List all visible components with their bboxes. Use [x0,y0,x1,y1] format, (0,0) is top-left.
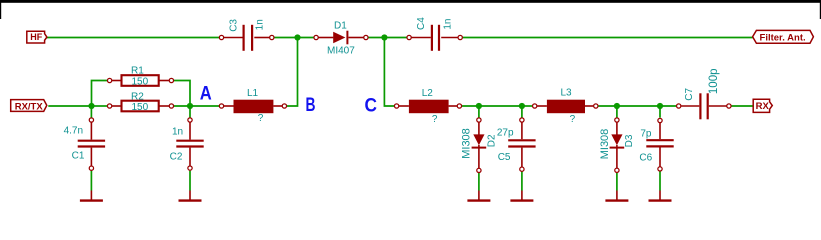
svg-text:C6: C6 [639,153,652,164]
svg-text:1n: 1n [172,127,183,138]
inductor L2 [394,100,461,114]
svg-text:C1: C1 [72,151,85,162]
window border top bar [0,0,821,3]
capacitor C7 [677,93,732,119]
diode D1 [314,31,368,45]
svg-text:D3: D3 [624,134,635,147]
svg-text:MI407: MI407 [327,46,355,57]
port HF [27,31,47,43]
capacitor C2 [176,118,203,170]
ground D2 [467,191,490,201]
svg-text:C: C [365,96,378,117]
ground D3 [605,191,628,201]
svg-text:?: ? [570,114,576,125]
svg-text:C4: C4 [416,17,427,30]
svg-text:MI308: MI308 [599,129,611,160]
wire D3 junction to C6 junction [617,105,660,107]
wire C7 to RX port [731,105,753,107]
capacitor C4 [407,25,462,51]
wire left R1 branch [92,81,108,107]
wire C1 to ground [90,171,92,191]
wire node A to L1 [190,105,219,107]
diode D3 [610,118,625,173]
capacitor C6 [646,118,673,171]
wire C5 to ground [521,172,523,191]
svg-text:D2: D2 [486,134,497,147]
wire C3 to D1 [274,37,314,39]
junction node after D1 [381,34,387,40]
svg-text:RX: RX [756,101,770,112]
svg-text:D1: D1 [334,21,347,32]
svg-text:R2: R2 [131,91,144,102]
wire vertical node B drop [287,38,298,107]
svg-text:7p: 7p [640,128,652,139]
wire C6 branch top [659,106,661,118]
wire C4 to Filter. Ant. port [463,37,753,39]
svg-text:1n: 1n [443,19,454,30]
wire HF to C3 [47,37,220,39]
junction node A [187,103,193,109]
wire C6 to ground [659,171,661,190]
junction D2 branch [476,103,482,109]
wire C6 junction to C7 [660,105,677,107]
capacitor C1 [78,118,105,171]
wire D3 branch top [616,106,618,118]
svg-text:4.7n: 4.7n [64,125,83,136]
port RX/TX [11,100,47,113]
wire D2 to ground [478,173,480,191]
capacitor C5 [508,118,535,172]
wire C2 branch top [189,106,191,118]
wire C1 branch top [90,106,92,118]
wire C2 to ground [189,171,191,191]
svg-text:L2: L2 [422,88,434,99]
ground C5 [510,191,533,201]
svg-text:L1: L1 [247,88,259,99]
svg-text:R1: R1 [131,66,144,77]
wire R2 right to node A [174,105,190,107]
diode D2 [472,118,487,173]
svg-text:?: ? [432,114,438,125]
resistor R2 [107,101,173,112]
svg-text:C7: C7 [684,87,695,100]
window border right [820,0,821,19]
ground C2 [179,191,202,201]
wire D2 branch top [478,106,480,118]
svg-text:150: 150 [131,102,148,113]
wire vertical node C drop [384,38,394,107]
wire D1 to C4 [368,37,406,39]
wire L3 to D3 junction [598,105,616,107]
svg-text:150: 150 [131,77,148,88]
junction C6 branch [657,103,663,109]
wire D2 junction to C5 junction [479,105,522,107]
svg-text:?: ? [258,113,264,124]
wire C5 junction to L3 [522,105,533,107]
inductor L3 [533,100,598,114]
svg-text:L3: L3 [560,87,572,98]
wire C5 branch top [521,106,523,118]
wire node to R2 left [92,105,108,107]
svg-text:B: B [306,95,316,116]
svg-text:27p: 27p [497,128,514,139]
wire D3 to ground [616,173,618,191]
junction node after C3 [294,34,300,40]
svg-text:C3: C3 [228,19,239,32]
svg-text:1n: 1n [254,19,265,30]
svg-text:C2: C2 [170,151,183,162]
inductor L1 [219,100,286,114]
port RX [753,99,772,112]
svg-text:HF: HF [30,32,42,42]
svg-text:C5: C5 [498,152,511,163]
resistor R1 [107,75,173,86]
wire R1 right to node A branch [174,81,190,107]
wire RX/TX port to node [48,105,91,107]
svg-text:Filter. Ant.: Filter. Ant. [760,32,806,43]
junction C5 branch [519,103,525,109]
capacitor C3 [219,25,274,51]
port Filter. Ant. [753,30,814,43]
svg-text:MI308: MI308 [461,128,473,159]
window border left [0,0,1,19]
ground C6 [649,191,672,201]
svg-text:A: A [200,83,212,104]
junction D3 branch [614,103,620,109]
svg-text:100p: 100p [708,69,720,95]
wire L2 to junction [462,105,479,107]
ground C1 [80,191,103,201]
svg-text:RX/TX: RX/TX [15,101,44,112]
junction RX/TX node [88,103,94,109]
